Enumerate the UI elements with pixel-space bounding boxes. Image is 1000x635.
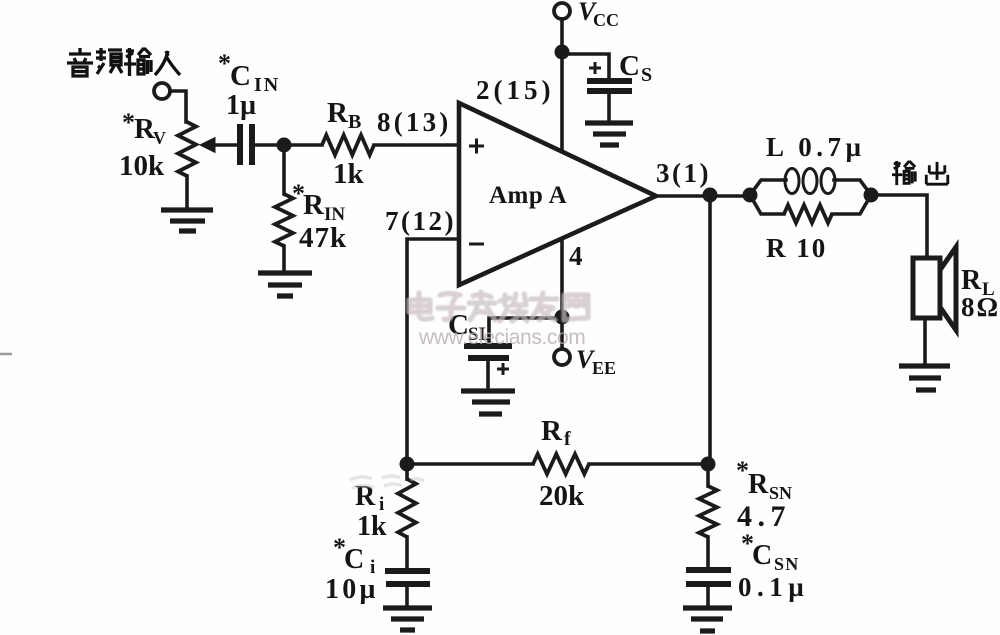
watermark url text <box>418 326 585 349</box>
wire VCC junction to CS <box>562 54 609 78</box>
capacitor Ci <box>385 571 430 584</box>
svg-text:7(12): 7(12) <box>385 206 456 236</box>
wire CIN to RB <box>255 143 322 147</box>
svg-text:R: R <box>327 97 349 129</box>
wire inverting input <box>407 239 459 464</box>
svg-text:C: C <box>230 60 251 92</box>
node VCC junction <box>555 45 570 60</box>
label 4.7 <box>737 500 791 533</box>
label *CSN <box>741 529 799 574</box>
resistor RB <box>322 135 374 155</box>
resistor RIN <box>275 194 293 246</box>
ground (Ci) <box>383 608 432 630</box>
wire RIN to ground <box>282 246 286 271</box>
svg-text:R 10: R 10 <box>766 233 827 263</box>
svg-text:f: f <box>564 428 571 450</box>
wire speaker to ground <box>923 318 927 364</box>
resistor Rf <box>533 454 589 474</box>
label pin 3(1) <box>656 158 711 188</box>
watermark chinese text <box>409 292 588 321</box>
svg-text:C: C <box>344 544 364 575</box>
potentiometer RV <box>178 122 215 209</box>
svg-text:www.elecians.com: www.elecians.com <box>418 326 585 349</box>
label 47k <box>299 222 347 254</box>
svg-text:SN: SN <box>774 554 799 574</box>
capacitor CSN <box>686 570 731 584</box>
label Ri <box>355 481 384 515</box>
svg-text:L 0.7µ: L 0.7µ <box>766 132 866 162</box>
node output junction <box>703 188 718 203</box>
watermark smudge near Ri <box>350 476 424 488</box>
ground (CSN) <box>683 608 732 631</box>
label RB <box>327 97 361 133</box>
svg-text:V: V <box>153 128 166 148</box>
wire RSN to CSN <box>706 537 710 567</box>
label *Ci <box>333 533 375 578</box>
svg-text:R: R <box>303 189 325 221</box>
svg-text:C: C <box>752 540 772 571</box>
svg-text:R: R <box>748 469 769 500</box>
svg-text:EE: EE <box>592 358 616 378</box>
op-amp U1 AmpA triangle <box>459 103 656 285</box>
wire to speaker <box>871 195 927 258</box>
svg-text:B: B <box>348 111 361 133</box>
capacitor CSL <box>464 346 512 358</box>
svg-text:R: R <box>541 415 563 447</box>
label *RV <box>122 108 166 148</box>
inductor L top branch <box>750 169 871 196</box>
resistor RSN <box>699 486 717 537</box>
label VCC <box>578 0 619 30</box>
svg-text:8Ω: 8Ω <box>961 292 1000 322</box>
ground (RIN) <box>258 273 312 296</box>
wire op-amp output <box>656 194 750 198</box>
label 10k <box>119 150 165 182</box>
capacitor CS <box>587 81 632 91</box>
terminal VCC <box>554 3 570 19</box>
wire Ci to ground <box>405 587 409 606</box>
label pin 2(15) <box>476 75 554 105</box>
svg-text:20k: 20k <box>539 480 585 512</box>
label 8ohm <box>961 292 1000 322</box>
op-amp plus input symbol <box>469 139 484 154</box>
wire RB to op-amp <box>374 143 459 147</box>
ground (CS) <box>585 123 633 145</box>
svg-text:4: 4 <box>569 241 583 271</box>
label CSL <box>448 309 491 345</box>
svg-text:10k: 10k <box>119 150 165 182</box>
svg-text:3(1): 3(1) <box>656 158 711 188</box>
label pin 7(12) <box>385 206 456 236</box>
node LR right junction <box>864 188 879 203</box>
svg-text:1k: 1k <box>357 511 387 542</box>
wire CSN to ground <box>706 587 710 606</box>
label pin 8(13) <box>377 107 451 137</box>
speaker RL <box>913 247 956 330</box>
label 1u <box>226 90 256 121</box>
wire arrow to CIN <box>213 143 236 147</box>
wire junction to RSN <box>706 469 710 486</box>
ground (speaker) <box>899 366 950 390</box>
wire junction to Ri <box>405 469 409 479</box>
svg-text:1k: 1k <box>333 158 365 190</box>
wire CSL to ground <box>486 361 490 389</box>
node input junction <box>277 138 292 153</box>
label 1k (Ri) <box>357 511 387 542</box>
node feedback left junction <box>400 457 415 472</box>
wire Ri to Ci <box>405 537 409 568</box>
op-amp minus input symbol <box>469 243 484 246</box>
capacitor CIN <box>240 124 252 165</box>
svg-text:C: C <box>619 50 640 82</box>
label output (输出) <box>892 161 948 185</box>
svg-text:0.1µ: 0.1µ <box>738 572 809 602</box>
label *RSN <box>736 456 792 503</box>
label 20k <box>539 480 585 512</box>
wire junction to RIN <box>282 150 286 194</box>
svg-text:47k: 47k <box>299 222 347 254</box>
wire op-amp pin4 to VEE <box>560 241 564 349</box>
label CS <box>619 50 652 86</box>
ground (RV) <box>161 210 213 231</box>
wire feedback row <box>407 462 710 466</box>
wire input to potentiometer <box>170 91 186 122</box>
svg-text:10µ: 10µ <box>325 574 379 605</box>
resistor Ri <box>398 479 416 537</box>
svg-text:8(13): 8(13) <box>377 107 451 137</box>
svg-text:CC: CC <box>593 10 619 30</box>
edge mark left <box>0 353 12 356</box>
label L 0.7u <box>766 132 866 162</box>
node LR left junction <box>743 188 758 203</box>
label *RIN <box>292 179 345 225</box>
plus mark (CSL) <box>497 363 509 375</box>
input terminal <box>154 83 170 99</box>
label 0.1u <box>738 572 809 602</box>
svg-text:2(15): 2(15) <box>476 75 554 105</box>
label Amp A <box>489 182 567 209</box>
svg-text:1µ: 1µ <box>226 90 256 121</box>
wire pin4 junction to CSL <box>489 318 562 343</box>
terminal VEE <box>554 349 570 365</box>
label RL <box>961 265 995 300</box>
resistor R bottom branch <box>750 195 871 223</box>
label pin 4 <box>569 241 583 271</box>
wire CS to ground <box>607 94 611 121</box>
ground (CSL) <box>461 391 515 414</box>
label audio-input (音频输入) <box>67 48 180 76</box>
svg-text:S: S <box>641 64 652 86</box>
svg-text:IN: IN <box>254 74 280 96</box>
label 10u <box>325 574 379 605</box>
label VEE <box>576 345 616 378</box>
wire output to feedback <box>708 195 712 464</box>
label R 10 <box>766 233 827 263</box>
svg-text:Amp A: Amp A <box>489 182 567 209</box>
wire VCC to op-amp pin2 <box>560 19 564 151</box>
label *CIN <box>218 49 280 96</box>
node pin4 junction <box>555 310 570 325</box>
label Rf <box>541 415 571 450</box>
label 1k (RB) <box>333 158 365 190</box>
node feedback right junction <box>701 457 716 472</box>
plus mark (CS) <box>589 62 601 74</box>
